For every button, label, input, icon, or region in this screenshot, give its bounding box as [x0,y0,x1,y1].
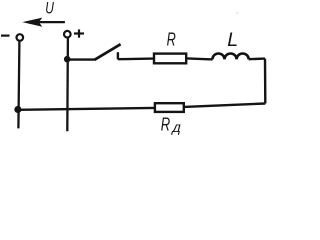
wire bottom right (corner to Rd) [184,104,265,107]
resistor Rd [155,103,184,112]
terminal (plus) [64,31,71,38]
wire junction to switch [67,58,96,60]
wire resistor R to inductor [187,58,213,59]
paper speck [236,12,238,14]
switch S [95,44,121,60]
terminal (minus) [17,34,24,41]
svg-text:R: R [161,114,170,135]
svg-text:U: U [45,0,54,17]
wire plus-branch vertical [66,38,69,131]
node junction bottom-left [14,106,21,113]
wire bottom left (Rd to junction) [18,108,155,110]
wire inductor to right corner [249,57,265,60]
svg-text:R: R [167,28,176,49]
node junction at plus branch [64,56,71,63]
svg-text:L: L [227,29,238,51]
wire right vertical [264,59,267,104]
arrow (direction of U) [22,18,65,27]
wire switch to resistor R [118,57,153,60]
resistor R [154,54,186,64]
wire left vertical (from minus terminal) [18,41,19,128]
minus sign [1,34,10,36]
plus sign [74,29,84,37]
inductor L [212,54,248,60]
label Rd [161,114,184,136]
